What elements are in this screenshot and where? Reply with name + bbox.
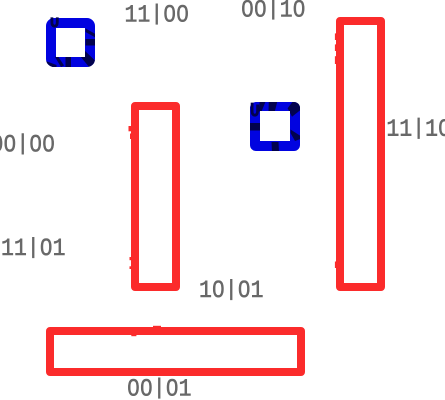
label 00|00 — [0, 134, 54, 155]
red rectangle middle vertical — [135, 106, 176, 287]
blue ring fill — [44, 16, 97, 69]
navy pen loop B1 — [52, 17, 57, 26]
red wobble marks middle rect — [129, 126, 132, 269]
label 00|01 — [128, 378, 190, 399]
label 11|00 — [126, 4, 188, 25]
label 00|10 — [242, 0, 304, 19]
label 10|01 — [201, 279, 263, 300]
red rectangle right tall — [340, 21, 381, 287]
red wobble marks bottom rect — [131, 326, 161, 336]
red rectangle bottom horizontal — [50, 331, 301, 372]
navy streaks — [46, 29, 97, 68]
label 11|10 — [388, 118, 445, 139]
navy pen loop B2 — [252, 103, 258, 116]
blue square middle — [248, 100, 302, 153]
blue ring fill — [248, 100, 302, 153]
blue square top-left — [44, 16, 97, 69]
label 11|01 — [3, 237, 65, 258]
navy streaks — [250, 102, 301, 152]
red wobble marks right rect — [335, 33, 337, 268]
